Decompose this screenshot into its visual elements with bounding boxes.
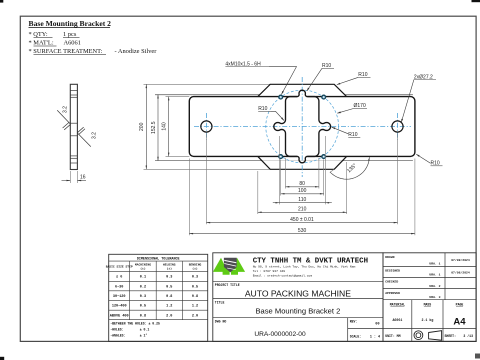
svg-text:140: 140 xyxy=(162,122,168,131)
svg-text:0.8: 0.8 xyxy=(192,295,198,299)
svg-text:1.2: 1.2 xyxy=(166,305,172,309)
svg-text:(±): (±) xyxy=(140,267,146,271)
dimension 16 xyxy=(62,171,87,183)
dimension 210 xyxy=(258,162,347,214)
svg-text:A6061: A6061 xyxy=(392,318,402,322)
title block right grid xyxy=(383,253,476,342)
project title row xyxy=(215,283,351,298)
svg-text:BENDING: BENDING xyxy=(189,264,202,267)
label R10 top right chamfer xyxy=(337,72,371,85)
svg-text:100: 100 xyxy=(298,188,307,194)
svg-text:16: 16 xyxy=(80,175,86,181)
cross cutout xyxy=(274,90,331,163)
svg-text:* QTY:: * QTY: xyxy=(29,31,48,38)
svg-text:Base Mounting Bracket 2: Base Mounting Bracket 2 xyxy=(29,19,112,28)
svg-text:- Anodize Silver: - Anodize Silver xyxy=(115,48,158,55)
svg-text:1 pcs: 1 pcs xyxy=(63,31,77,38)
svg-text:CHECKED: CHECKED xyxy=(385,280,398,284)
svg-text:0.8: 0.8 xyxy=(166,295,172,299)
note SURFACE TREATMENT xyxy=(29,48,158,55)
svg-text:80: 80 xyxy=(299,181,305,187)
company address xyxy=(253,264,356,277)
title row xyxy=(215,301,341,316)
svg-text:2.0: 2.0 xyxy=(166,314,172,318)
side view edge lines xyxy=(70,90,77,163)
svg-text:530: 530 xyxy=(298,228,307,234)
rev cell xyxy=(350,320,380,327)
svg-text:URA. 2: URA. 2 xyxy=(429,284,440,288)
dwg no row xyxy=(215,320,306,338)
svg-text:0.2: 0.2 xyxy=(140,285,146,289)
svg-text:3.2: 3.2 xyxy=(92,132,98,139)
svg-text:0.3: 0.3 xyxy=(192,276,198,280)
crop mark top-right xyxy=(472,0,480,2)
svg-text:0.8: 0.8 xyxy=(140,314,146,318)
svg-text:1.2: 1.2 xyxy=(192,305,198,309)
svg-text:0.3: 0.3 xyxy=(166,276,172,280)
svg-text:152.5: 152.5 xyxy=(151,121,157,134)
svg-text:MACHINING: MACHINING xyxy=(135,264,151,267)
M10 tapped holes xyxy=(279,95,326,158)
svg-text:(±): (±) xyxy=(192,267,198,271)
svg-text:No 90, 9 street, Linh Tay, Thu: No 90, 9 street, Linh Tay, Thu Duc, Ho C… xyxy=(253,264,356,268)
unit projection sheet xyxy=(385,331,473,341)
tall center profile bottom xyxy=(258,156,347,169)
dimension 450 xyxy=(206,134,397,225)
scale cell xyxy=(350,334,380,339)
svg-text:DWG NO: DWG NO xyxy=(215,320,227,324)
svg-text:UNIT: MM: UNIT: MM xyxy=(385,334,400,338)
svg-text:BASIC SIZE STEP: BASIC SIZE STEP xyxy=(106,266,133,269)
svg-text:URA-0000002-00: URA-0000002-00 xyxy=(254,331,306,338)
svg-text:REV:: REV: xyxy=(350,320,358,324)
svg-text:0.3: 0.3 xyxy=(140,295,146,299)
svg-text:SCALE:: SCALE: xyxy=(350,334,362,338)
svg-text:1 : 4: 1 : 4 xyxy=(370,335,380,339)
svg-text:6~30: 6~30 xyxy=(115,285,123,289)
bolt circle dia 170 xyxy=(266,90,339,163)
angle 135 deg xyxy=(330,157,370,179)
crop mark bottom-right xyxy=(475,354,480,359)
svg-text:± 0.1: ± 0.1 xyxy=(140,328,150,332)
svg-text:APPROVED: APPROVED xyxy=(385,291,400,295)
dimension 110 xyxy=(273,136,332,204)
svg-text:Tel : 0707 937 449: Tel : 0707 937 449 xyxy=(253,269,286,273)
svg-text:3.2: 3.2 xyxy=(62,106,68,113)
surface finish mark right xyxy=(70,127,91,146)
note title Base Mounting Bracket 2 xyxy=(29,19,112,28)
tall center profile top xyxy=(258,84,347,96)
svg-text:3 /13: 3 /13 xyxy=(463,334,473,338)
svg-text:DIMENSIONAL TOLERANCE: DIMENSIONAL TOLERANCE xyxy=(137,257,180,261)
label R10 plate corner xyxy=(416,154,442,166)
svg-text:URA. 3: URA. 3 xyxy=(429,295,440,299)
svg-text:450 ± 0.01: 450 ± 0.01 xyxy=(290,217,314,223)
svg-text:-ANGLES:: -ANGLES: xyxy=(110,334,125,338)
svg-text:0.5: 0.5 xyxy=(192,285,198,289)
tolerance table text xyxy=(106,257,202,337)
dimension 80 xyxy=(286,158,319,189)
right hole dia 27.2 xyxy=(392,121,403,132)
svg-text:210: 210 xyxy=(298,207,307,213)
svg-text:* SURFACE TREATMENT:: * SURFACE TREATMENT: xyxy=(29,48,103,55)
svg-text:07/08/2024: 07/08/2024 xyxy=(451,270,470,274)
svg-text:-BETWEEN THE HOLES: ± 0.25: -BETWEEN THE HOLES: ± 0.25 xyxy=(110,322,160,326)
svg-text:URA. 1: URA. 1 xyxy=(429,273,440,277)
label R10 top lobe xyxy=(307,63,334,91)
svg-text:110: 110 xyxy=(298,197,306,203)
material mass page xyxy=(390,303,467,328)
main view narrow profile edges (152.5) xyxy=(155,95,413,161)
svg-text:A6061: A6061 xyxy=(64,40,81,47)
uratech logo xyxy=(213,258,245,275)
left hole dia 27.2 xyxy=(201,121,212,132)
svg-text:TITLE: TITLE xyxy=(215,301,225,305)
svg-text:120~400: 120~400 xyxy=(112,305,127,309)
label 4xM10x1.5-6H xyxy=(225,61,296,94)
svg-text:MATERIAL: MATERIAL xyxy=(390,303,405,307)
crop mark bottom-left xyxy=(0,357,4,360)
svg-text:A4: A4 xyxy=(453,317,466,328)
svg-text:WELDING: WELDING xyxy=(163,264,176,267)
crop mark top-left xyxy=(0,0,3,3)
svg-text:PROJECT TITLE: PROJECT TITLE xyxy=(215,283,240,287)
label R10 left lobe xyxy=(258,106,284,121)
dimension 152.5 xyxy=(151,95,159,161)
vertical centerline of cross xyxy=(301,77,303,177)
svg-text:07/08/2024: 07/08/2024 xyxy=(451,258,470,262)
svg-text:ABOVE 400: ABOVE 400 xyxy=(110,314,129,318)
side view outline xyxy=(70,84,77,169)
svg-text:00: 00 xyxy=(375,322,379,326)
horizontal centerline xyxy=(194,126,411,128)
svg-text:200: 200 xyxy=(139,122,145,131)
dimension 100 xyxy=(281,160,324,196)
svg-text:AUTO PACKING MACHINE: AUTO PACKING MACHINE xyxy=(245,288,351,298)
tolerance table grid xyxy=(109,254,208,341)
svg-text:30~120: 30~120 xyxy=(113,295,126,299)
chamfer extension line for 135 xyxy=(330,169,334,172)
extension lines 140 xyxy=(166,97,190,157)
svg-text:DRAWN: DRAWN xyxy=(385,255,394,259)
svg-text:± 1°: ± 1° xyxy=(140,334,148,338)
plate outline 530x140 rounded rect xyxy=(189,97,415,157)
svg-text:(±): (±) xyxy=(167,267,173,271)
svg-text:2.0: 2.0 xyxy=(192,314,198,318)
svg-text:PAGE: PAGE xyxy=(456,303,464,307)
drawn designed checked approved xyxy=(385,255,470,299)
dimension 140 xyxy=(162,97,170,157)
note QTY xyxy=(29,31,80,38)
svg-text:0.5: 0.5 xyxy=(166,285,172,289)
extension lines 200 xyxy=(144,84,271,169)
note MATL xyxy=(29,40,81,47)
right hole centerline xyxy=(397,113,399,140)
svg-text:Email : uratech-contact@gmail.: Email : uratech-contact@gmail.com xyxy=(253,274,313,278)
label R10 right lobe xyxy=(332,127,361,138)
svg-text:≤ 6: ≤ 6 xyxy=(116,275,122,280)
svg-text:2.1 kg: 2.1 kg xyxy=(421,318,433,322)
svg-text:DESIGNED: DESIGNED xyxy=(385,269,400,273)
svg-text:MASS: MASS xyxy=(424,303,432,307)
dimension 200 xyxy=(139,84,147,169)
svg-text:* MAT'L:: * MAT'L: xyxy=(29,40,54,47)
left hole centerline xyxy=(205,113,207,140)
svg-text:0.1: 0.1 xyxy=(140,276,146,280)
svg-text:Base Mounting Bracket 2: Base Mounting Bracket 2 xyxy=(255,306,340,315)
label 2xD27.2 xyxy=(401,74,436,122)
surface finish mark left xyxy=(57,110,77,130)
dimension 530 xyxy=(189,159,415,236)
svg-text:CTY TNHH TM & DVKT URATECH: CTY TNHH TM & DVKT URATECH xyxy=(253,257,368,265)
svg-text:-HOLES:: -HOLES: xyxy=(110,328,123,332)
svg-text:SHEET:: SHEET: xyxy=(445,334,457,338)
svg-text:URA. 1: URA. 1 xyxy=(429,262,440,266)
title block center grid xyxy=(213,253,383,342)
svg-text:0.5: 0.5 xyxy=(140,305,146,309)
label D170 xyxy=(337,103,367,113)
